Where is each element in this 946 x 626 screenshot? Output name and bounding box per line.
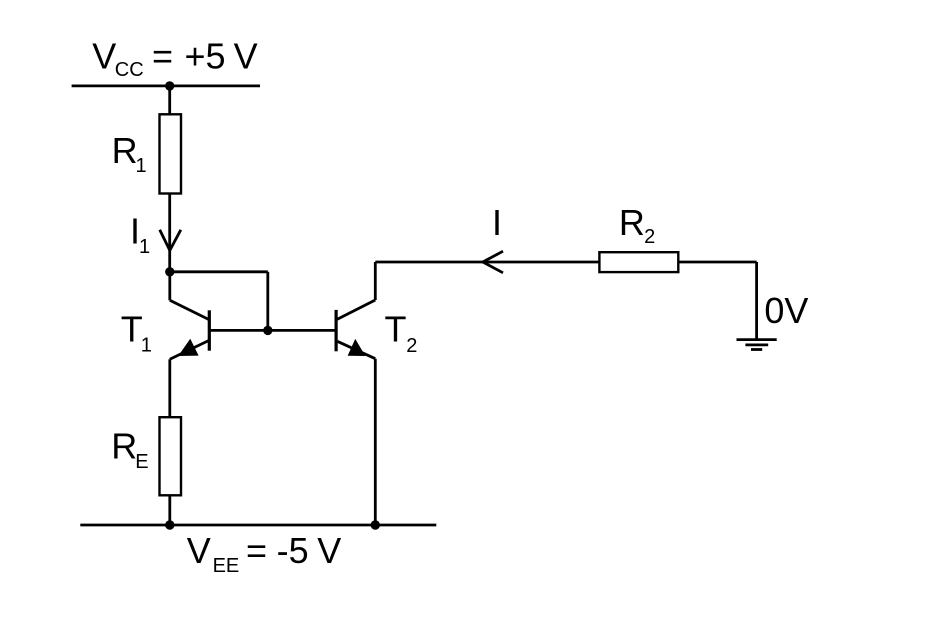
junction dot on VCC rail	[165, 81, 174, 90]
label RE	[111, 426, 148, 474]
wire node A to base feedback	[170, 270, 268, 273]
wire VCC rail to R1	[168, 86, 171, 116]
label VCC = +5 V	[92, 35, 257, 81]
wire down to ground	[755, 262, 758, 340]
svg-text:1: 1	[141, 335, 152, 357]
svg-text:V: V	[92, 35, 116, 76]
transistor T2	[336, 262, 375, 525]
resistor R2	[599, 252, 678, 272]
svg-text:R: R	[112, 130, 138, 171]
svg-text:V: V	[187, 530, 211, 571]
svg-text:T: T	[121, 309, 143, 350]
node A junction dot	[165, 267, 174, 276]
svg-text:E: E	[135, 451, 148, 473]
svg-text:V: V	[234, 35, 258, 76]
svg-text:-5: -5	[277, 530, 309, 571]
ground	[737, 340, 777, 350]
svg-text:0V: 0V	[764, 290, 808, 331]
svg-text:2: 2	[406, 335, 417, 357]
label T2	[385, 309, 418, 357]
wire base net T1 to T2	[209, 329, 336, 332]
power rail VCC	[72, 85, 260, 88]
svg-text:V: V	[317, 530, 341, 571]
svg-text:+5: +5	[185, 35, 226, 76]
svg-text:R: R	[111, 426, 137, 467]
svg-text:R: R	[619, 202, 645, 243]
label T1	[121, 309, 152, 357]
wire T2 collector to ground node	[375, 261, 756, 264]
junction dot on base net	[263, 326, 272, 335]
label R2	[619, 202, 655, 248]
power rail VEE	[80, 524, 436, 527]
resistor RE	[160, 417, 182, 495]
wire RE to VEE rail	[168, 495, 171, 525]
svg-text:1: 1	[139, 236, 150, 258]
svg-text:=: =	[152, 35, 173, 76]
junction dot T2 emitter-VEE	[371, 520, 380, 529]
svg-text:CC: CC	[115, 59, 144, 81]
wire down to base net	[266, 272, 269, 331]
svg-text:1: 1	[136, 155, 147, 177]
svg-text:=: =	[246, 530, 267, 571]
svg-text:EE: EE	[213, 555, 240, 577]
current arrow I1	[160, 230, 181, 251]
svg-text:2: 2	[644, 226, 655, 248]
label R1	[112, 130, 147, 177]
wire R1 to node A	[168, 194, 171, 272]
current arrow I	[483, 251, 503, 273]
svg-text:T: T	[385, 309, 407, 350]
junction dot RE-VEE	[165, 520, 174, 529]
svg-text:I: I	[492, 202, 502, 243]
transistor T1	[170, 272, 210, 418]
label VEE = -5 V	[187, 530, 342, 577]
resistor R1	[160, 114, 182, 193]
label I1	[130, 210, 150, 258]
